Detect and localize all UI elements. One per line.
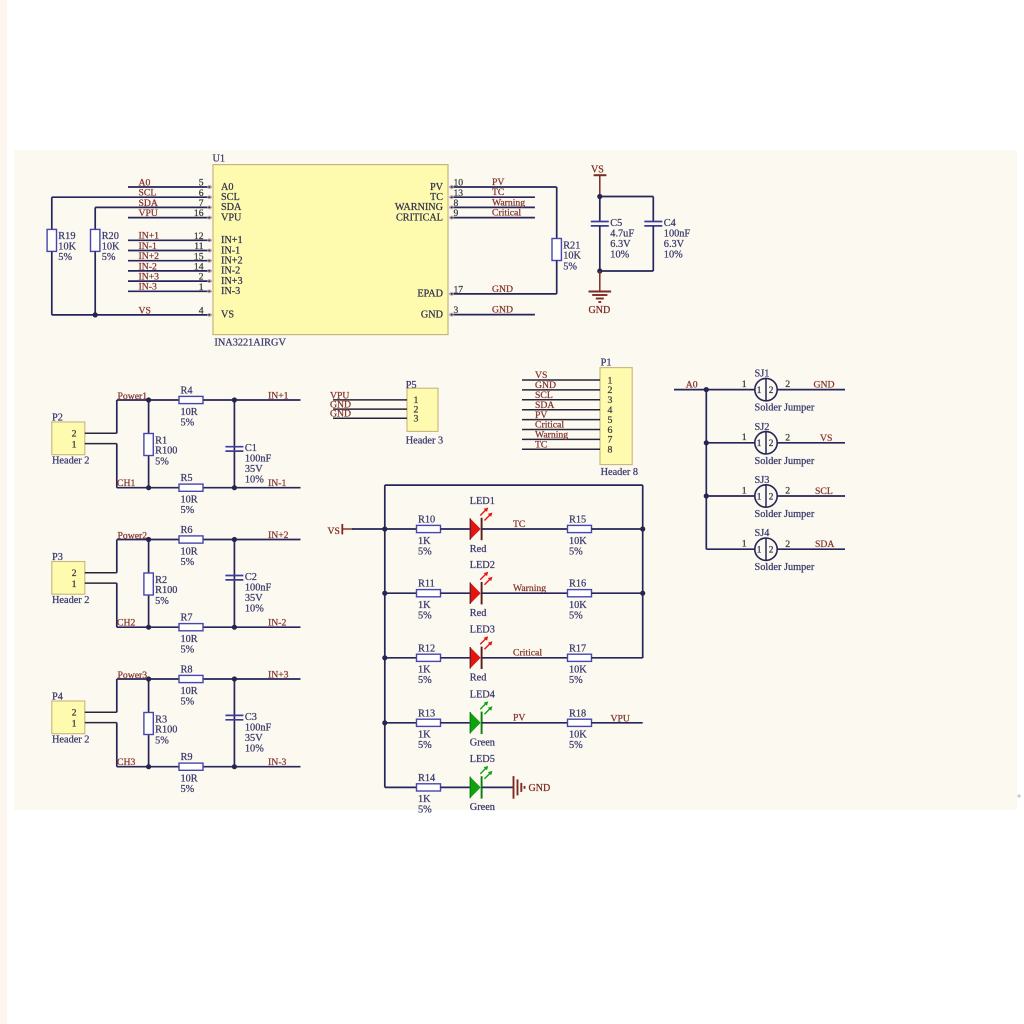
wire rail to R10 — [385, 528, 417, 530]
wire net IN+3 to U1 pin 2 — [128, 280, 212, 283]
svg-text:1: 1 — [742, 432, 747, 443]
junction right rail row 1 — [640, 526, 645, 531]
svg-text:IN-1: IN-1 — [268, 478, 286, 489]
wire net A0 to U1 pin 5 — [128, 186, 212, 189]
svg-text:1: 1 — [742, 485, 747, 496]
svg-text:5%: 5% — [569, 611, 583, 622]
wire P4 pin 2 to Power3 — [85, 679, 117, 712]
svg-text:VS: VS — [591, 164, 604, 175]
solder jumper SJ2 — [755, 422, 815, 467]
wire net SDA to U1 pin 7 — [95, 206, 211, 209]
svg-text:C2: C2 — [245, 572, 257, 583]
junction VS/C5 — [597, 194, 602, 199]
svg-text:Power2: Power2 — [118, 530, 148, 541]
resistor R11 — [417, 579, 441, 622]
svg-text:2: 2 — [72, 568, 77, 579]
svg-text:GND: GND — [421, 309, 443, 320]
junction Power1/C1 — [232, 397, 237, 402]
wire net VPU to U1 pin 16 — [128, 216, 212, 219]
wire C1 leads — [233, 400, 235, 488]
junction Power3/C3 — [232, 676, 237, 681]
wire VS to LED rail — [352, 528, 385, 530]
wire C4 to ground branch — [600, 270, 654, 272]
wire P2 pin 2 to Power1 — [85, 400, 117, 433]
solder jumper SJ1 — [755, 369, 815, 414]
LED LED3 — [470, 625, 495, 684]
solder jumper SJ3 — [755, 475, 815, 520]
wire R17 to right rail corner — [592, 657, 643, 659]
svg-text:10K: 10K — [569, 600, 587, 611]
svg-text:Red: Red — [470, 544, 487, 555]
svg-text:5%: 5% — [569, 546, 583, 557]
svg-text:3: 3 — [454, 305, 459, 316]
wire SJ4 pin 2 to net SDA — [777, 548, 845, 550]
connector P3 Header 2 — [52, 552, 90, 606]
svg-text:4.7uF: 4.7uF — [610, 229, 634, 240]
junction R20/VS — [93, 312, 98, 317]
resistor R3 — [144, 713, 178, 747]
wire U1 pin 9 net Critical — [450, 216, 535, 219]
svg-text:5%: 5% — [102, 252, 116, 263]
wire C5 top lead — [599, 197, 601, 222]
svg-text:5%: 5% — [155, 735, 169, 746]
svg-text:Red: Red — [470, 673, 487, 684]
junction rail/LED1 row — [382, 526, 387, 531]
svg-text:IN-2: IN-2 — [268, 618, 286, 629]
resistor R17 — [568, 643, 592, 686]
svg-text:TC: TC — [535, 440, 547, 451]
svg-text:5%: 5% — [155, 596, 169, 607]
wire P3 pin 2 to Power2 — [85, 540, 117, 573]
junction SJ rail row 1 — [704, 387, 709, 392]
capacitor C3 — [225, 712, 271, 755]
svg-text:INA3221AIRGV: INA3221AIRGV — [214, 337, 286, 348]
wire Power3 rail — [117, 678, 301, 680]
svg-text:R15: R15 — [569, 515, 586, 526]
svg-text:1: 1 — [757, 439, 762, 449]
wire VPU to P5 pin 1 — [333, 399, 407, 401]
resistor R6 — [179, 525, 203, 568]
wire C5 bottom lead — [599, 226, 601, 271]
svg-text:5%: 5% — [155, 456, 169, 467]
wire GND to P1 pin 2 — [522, 389, 600, 391]
svg-text:Red: Red — [470, 608, 487, 619]
wire U1 pin 10 net PV — [450, 186, 557, 189]
wire net IN-1 to U1 pin 11 — [128, 249, 212, 252]
junction CH3/R3 — [146, 764, 151, 769]
svg-text:R7: R7 — [181, 613, 193, 624]
svg-text:100nF: 100nF — [664, 229, 691, 240]
svg-text:IN+2: IN+2 — [268, 530, 289, 541]
svg-text:R5: R5 — [181, 473, 193, 484]
LED LED1 — [470, 496, 495, 555]
wire C4 top lead — [652, 197, 654, 222]
svg-text:10%: 10% — [610, 250, 629, 261]
svg-text:5%: 5% — [418, 740, 432, 751]
junction Power2/R2 — [146, 537, 151, 542]
svg-text:Solder Jumper: Solder Jumper — [755, 509, 815, 520]
svg-text:35V: 35V — [245, 593, 263, 604]
connector P4 Header 2 — [52, 692, 90, 746]
svg-text:R17: R17 — [569, 643, 586, 654]
svg-text:Green: Green — [470, 738, 495, 749]
svg-text:Header 2: Header 2 — [52, 735, 89, 746]
svg-text:C1: C1 — [245, 443, 257, 454]
junction rail/LED2 row — [382, 591, 387, 596]
wire Power2 rail — [117, 539, 301, 541]
wire left VS vertical rail — [384, 485, 386, 787]
svg-text:17: 17 — [454, 285, 464, 296]
wire rail to SJ3 — [706, 495, 755, 497]
svg-text:10K: 10K — [569, 536, 587, 547]
capacitor C5 — [591, 218, 635, 261]
wire rail to SJ4 — [706, 548, 755, 550]
wire TC to P1 pin 8 — [522, 448, 600, 450]
resistor R20 — [91, 229, 120, 263]
svg-text:100nF: 100nF — [245, 454, 272, 465]
wire C2 leads — [233, 540, 235, 628]
resistor R1 — [144, 434, 178, 468]
svg-text:1: 1 — [72, 439, 77, 450]
wire SJ3 pin 2 to net SCL — [777, 495, 845, 497]
svg-text:P2: P2 — [52, 413, 63, 424]
ground GND (LED5) — [514, 776, 551, 799]
svg-text:5%: 5% — [181, 417, 195, 428]
svg-text:VS: VS — [221, 310, 234, 321]
connector P2 Header 2 — [52, 413, 90, 467]
svg-text:Power3: Power3 — [118, 670, 148, 681]
svg-text:R20: R20 — [102, 231, 119, 242]
junction SJ rail row 3 — [704, 493, 709, 498]
wire U1 pin 8 net Warning — [450, 206, 535, 209]
svg-text:10%: 10% — [664, 250, 683, 261]
svg-text:6.3V: 6.3V — [610, 239, 631, 250]
resistor R2 — [144, 573, 178, 607]
svg-text:5%: 5% — [418, 805, 432, 816]
wire right VS vertical rail — [642, 485, 644, 658]
wire rail to R14 — [385, 786, 417, 788]
svg-text:SCL: SCL — [815, 486, 833, 497]
svg-text:R16: R16 — [569, 579, 586, 590]
svg-text:A0: A0 — [686, 379, 698, 390]
svg-text:10R: 10R — [181, 495, 198, 506]
svg-text:Power1: Power1 — [118, 391, 148, 402]
solder jumper SJ4 — [755, 528, 815, 573]
wire net IN-2 to U1 pin 14 — [128, 269, 212, 272]
svg-text:IN-3: IN-3 — [139, 282, 157, 293]
wire R11 to LED2 — [441, 592, 470, 594]
power port VS — [591, 164, 606, 196]
svg-text:GND: GND — [814, 380, 835, 391]
wire net IN-3 to U1 pin 1 — [128, 290, 212, 293]
svg-text:U1: U1 — [213, 154, 226, 165]
svg-text:5%: 5% — [58, 252, 72, 263]
wire R21 to EPAD GND — [556, 261, 558, 294]
svg-text:5%: 5% — [569, 740, 583, 751]
svg-text:EPAD: EPAD — [417, 289, 443, 300]
svg-text:LED4: LED4 — [470, 690, 495, 701]
svg-text:IN-3: IN-3 — [221, 286, 240, 297]
wire SJ vertical rail — [705, 390, 707, 550]
svg-text:100nF: 100nF — [245, 722, 272, 733]
svg-text:2: 2 — [785, 539, 790, 550]
wire VS to C4 branch — [600, 196, 654, 198]
svg-text:2: 2 — [769, 439, 774, 449]
resistor R19 — [47, 229, 76, 263]
wire rail to R12 — [385, 657, 417, 659]
junction CH1/C1 — [232, 485, 237, 490]
svg-text:R9: R9 — [181, 752, 193, 763]
svg-text:Critical: Critical — [513, 648, 542, 659]
wire GND to P5 pin 2 — [333, 408, 407, 410]
svg-text:PV: PV — [513, 713, 525, 724]
resistor R16 — [568, 579, 592, 622]
junction CH1/R1 — [146, 485, 151, 490]
wire PV down to R21 — [556, 187, 558, 239]
svg-text:5%: 5% — [418, 675, 432, 686]
junction right rail row 2 — [640, 591, 645, 596]
svg-text:R8: R8 — [181, 665, 193, 676]
svg-text:35V: 35V — [245, 464, 263, 475]
svg-text:CH1: CH1 — [117, 478, 135, 489]
resistor R5 — [179, 473, 203, 516]
svg-text:CH3: CH3 — [117, 757, 135, 768]
svg-text:C5: C5 — [610, 218, 622, 229]
svg-text:GND: GND — [492, 284, 513, 295]
svg-text:Header 3: Header 3 — [406, 436, 443, 447]
resistor R21 — [552, 239, 581, 273]
resistor R8 — [179, 665, 203, 708]
svg-text:R3: R3 — [155, 714, 167, 725]
op-amp U1 INA3221AIRGV body — [213, 154, 449, 349]
svg-text:1: 1 — [757, 386, 762, 396]
svg-text:10R: 10R — [181, 546, 198, 557]
svg-text:Warning: Warning — [513, 583, 546, 594]
svg-text:1: 1 — [72, 579, 77, 590]
svg-text:1: 1 — [742, 539, 747, 550]
svg-text:Solder Jumper: Solder Jumper — [755, 403, 815, 414]
LED LED5 — [470, 754, 495, 813]
wire Warning to P1 pin 7 — [522, 438, 600, 440]
svg-text:1: 1 — [757, 492, 762, 502]
ground GND — [589, 271, 612, 316]
wire R18 to VPU — [592, 722, 643, 724]
wire GND to P5 pin 3 — [333, 417, 407, 419]
svg-text:2: 2 — [769, 492, 774, 502]
junction CH3/C3 — [232, 764, 237, 769]
svg-text:GND: GND — [529, 783, 551, 794]
svg-text:10K: 10K — [102, 242, 120, 253]
wire VS top rail — [385, 484, 643, 486]
svg-text:Solder Jumper: Solder Jumper — [755, 456, 815, 467]
resistor R13 — [417, 708, 441, 751]
junction Power2/C2 — [232, 537, 237, 542]
wire U1 pin 13 net TC — [450, 196, 535, 199]
wire R3 shunt leads — [148, 679, 150, 767]
wire CH2 rail — [117, 626, 301, 628]
svg-text:GND: GND — [330, 409, 351, 420]
svg-text:R21: R21 — [563, 240, 580, 251]
svg-text:LED3: LED3 — [470, 625, 495, 636]
wire LED1 to R15 net TC — [482, 528, 568, 530]
svg-text:10K: 10K — [569, 665, 587, 676]
junction Power3/R3 — [146, 676, 151, 681]
svg-text:R2: R2 — [155, 575, 167, 586]
resistor R12 — [417, 643, 441, 686]
svg-text:R12: R12 — [418, 643, 435, 654]
svg-text:6.3V: 6.3V — [664, 239, 685, 250]
svg-text:5%: 5% — [181, 645, 195, 656]
svg-text:2: 2 — [769, 386, 774, 396]
junction CH2/C2 — [232, 625, 237, 630]
resistor R7 — [179, 613, 203, 656]
svg-text:P5: P5 — [406, 380, 417, 391]
power port VS (LED rail) — [328, 524, 354, 537]
svg-text:R100: R100 — [155, 725, 177, 736]
svg-text:1K: 1K — [418, 536, 431, 547]
resistor R10 — [417, 515, 441, 558]
wire R2 shunt leads — [148, 540, 150, 628]
svg-text:5%: 5% — [563, 261, 577, 272]
wire SJ1 pin 2 to net GND — [777, 389, 845, 391]
wire A0 to SJ rail — [674, 389, 755, 391]
wire C4 bottom lead — [652, 226, 654, 271]
wire LED4 to R18 net PV — [482, 722, 568, 724]
svg-text:2: 2 — [785, 486, 790, 497]
svg-text:10%: 10% — [245, 604, 264, 615]
svg-text:Header 2: Header 2 — [52, 595, 89, 606]
svg-text:Solder Jumper: Solder Jumper — [755, 562, 815, 573]
wire VS to P1 pin 1 — [522, 379, 600, 381]
svg-text:VS: VS — [139, 305, 151, 316]
svg-text:VS: VS — [820, 433, 832, 444]
wire SDA to P1 pin 4 — [522, 409, 600, 411]
svg-text:IN-3: IN-3 — [268, 757, 286, 768]
svg-text:5%: 5% — [181, 784, 195, 795]
svg-text:LED2: LED2 — [470, 560, 495, 571]
svg-text:GND: GND — [492, 305, 513, 316]
svg-text:1K: 1K — [418, 794, 431, 805]
svg-text:1K: 1K — [418, 665, 431, 676]
LED LED4 — [470, 690, 495, 749]
wire net IN+1 to U1 pin 12 — [128, 239, 212, 242]
svg-text:2: 2 — [72, 429, 77, 440]
svg-text:1: 1 — [72, 718, 77, 729]
wire LED3 to R17 net Critical — [482, 657, 568, 659]
svg-text:P3: P3 — [52, 552, 63, 563]
svg-text:P4: P4 — [52, 692, 63, 703]
wire R13 to LED4 — [441, 722, 470, 724]
svg-text:R11: R11 — [418, 579, 435, 590]
svg-text:SDA: SDA — [815, 539, 834, 550]
svg-text:Header 8: Header 8 — [601, 467, 638, 478]
wire R20 to VS rail — [94, 251, 96, 315]
svg-text:35V: 35V — [245, 733, 263, 744]
wire CH3 rail — [117, 766, 301, 768]
svg-text:Header 2: Header 2 — [52, 456, 89, 467]
svg-text:1K: 1K — [418, 730, 431, 741]
svg-text:R10: R10 — [418, 515, 435, 526]
svg-text:100nF: 100nF — [245, 583, 272, 594]
svg-text:3: 3 — [414, 414, 419, 425]
svg-text:R100: R100 — [155, 446, 177, 457]
wire LED2 to R16 net Warning — [482, 592, 568, 594]
svg-text:C3: C3 — [245, 712, 257, 723]
svg-text:VPU: VPU — [611, 713, 630, 724]
resistor R14 — [417, 773, 441, 816]
svg-text:9: 9 — [454, 208, 459, 219]
svg-text:2: 2 — [769, 546, 774, 556]
wire R10 to LED1 — [441, 528, 470, 530]
wire rail to R11 — [385, 592, 417, 594]
resistor R9 — [179, 752, 203, 795]
wire R15 to right rail — [592, 528, 643, 530]
svg-text:Critical: Critical — [492, 208, 521, 219]
wire Critical to P1 pin 6 — [522, 429, 600, 431]
resistor R18 — [568, 708, 592, 751]
svg-text:2: 2 — [785, 432, 790, 443]
svg-text:LED1: LED1 — [470, 496, 495, 507]
wire PV to P1 pin 5 — [522, 419, 600, 421]
svg-text:10R: 10R — [181, 686, 198, 697]
svg-text:R4: R4 — [181, 386, 193, 397]
wire net VS to U1 pin 4 — [52, 313, 212, 316]
wire U1 pin 3 net GND — [450, 313, 535, 316]
svg-text:TC: TC — [513, 519, 525, 530]
junction C5/ground — [597, 268, 602, 273]
wire SDA to R20 — [94, 207, 96, 229]
svg-text:Green: Green — [470, 802, 495, 813]
svg-text:VPU: VPU — [139, 208, 158, 219]
wire P3 pin 1 to CH2 — [85, 583, 117, 627]
junction Power1/R1 — [146, 397, 151, 402]
svg-text:5%: 5% — [418, 611, 432, 622]
resistor R15 — [568, 515, 592, 558]
svg-text:5%: 5% — [181, 557, 195, 568]
svg-text:VS: VS — [328, 526, 340, 537]
svg-text:1: 1 — [199, 282, 204, 293]
svg-text:10R: 10R — [181, 634, 198, 645]
wire Power1 rail — [117, 399, 301, 401]
svg-text:10K: 10K — [569, 730, 587, 741]
wire net IN+2 to U1 pin 15 — [128, 259, 212, 262]
wire CH1 rail — [117, 487, 301, 489]
svg-text:10R: 10R — [181, 774, 198, 785]
wire net SCL to U1 pin 6 — [52, 196, 212, 199]
junction rail/LED3 row — [382, 655, 387, 660]
svg-text:5%: 5% — [418, 546, 432, 557]
svg-text:5%: 5% — [569, 675, 583, 686]
svg-text:10K: 10K — [563, 251, 581, 262]
svg-text:R18: R18 — [569, 708, 586, 719]
wire P2 pin 1 to CH1 — [85, 444, 117, 488]
capacitor C2 — [225, 572, 271, 615]
wire U1 pin 17 net GND — [450, 292, 557, 295]
wire P4 pin 1 to CH3 — [85, 723, 117, 767]
wire SCL to R19 — [51, 197, 53, 229]
wire rail to R13 — [385, 722, 417, 724]
wire SCL to P1 pin 3 — [522, 399, 600, 401]
capacitor C4 — [644, 218, 690, 261]
connector P1 Header 8 — [600, 358, 638, 478]
resistor R4 — [179, 386, 203, 429]
svg-text:5%: 5% — [181, 505, 195, 516]
svg-text:R1: R1 — [155, 435, 167, 446]
svg-text:10%: 10% — [245, 743, 264, 754]
svg-text:10R: 10R — [181, 407, 198, 418]
svg-text:VPU: VPU — [221, 212, 242, 223]
junction rail/LED4 row — [382, 720, 387, 725]
